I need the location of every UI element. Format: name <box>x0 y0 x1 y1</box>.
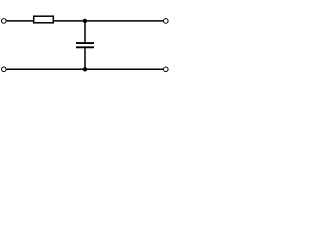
output terminal top-right <box>164 19 169 24</box>
node junction bottom <box>83 67 87 71</box>
resistor R <box>34 16 54 23</box>
output terminal bottom-right <box>164 67 169 72</box>
wire bottom rail <box>6 68 164 70</box>
wire top-left terminal to resistor <box>6 20 34 22</box>
wire resistor to top-right terminal <box>54 20 164 22</box>
capacitor C top plate <box>76 42 94 44</box>
wire junction down to capacitor <box>84 21 86 43</box>
capacitor C bottom plate <box>76 46 94 48</box>
input terminal top-left <box>2 19 7 24</box>
wire capacitor down to bottom junction <box>84 48 86 70</box>
node junction top <box>83 19 87 23</box>
input terminal bottom-left <box>2 67 7 72</box>
